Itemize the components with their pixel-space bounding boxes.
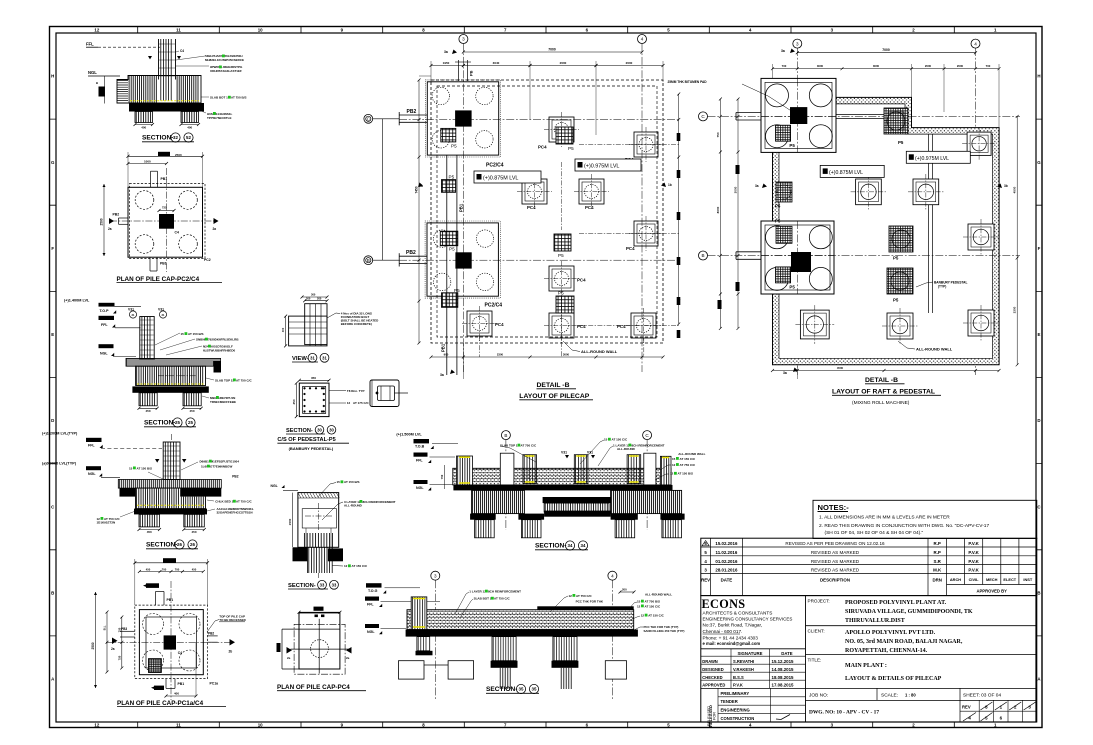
section marker arrows a2 <box>109 218 114 224</box>
svg-text:FFL: FFL <box>367 603 374 607</box>
signature table <box>701 648 806 650</box>
svg-text:PB2: PB2 <box>113 213 120 217</box>
section 33 pedestal section <box>271 480 396 589</box>
svg-text:3a: 3a <box>755 184 759 188</box>
svg-text:15: 15 <box>637 600 641 604</box>
svg-text:TITLE:: TITLE: <box>808 658 822 663</box>
svg-text:ENGINEERING: ENGINEERING <box>721 708 750 713</box>
svg-text:15: 15 <box>181 332 185 336</box>
svg-text:2000: 2000 <box>626 61 633 65</box>
svg-text:33: 33 <box>332 582 337 587</box>
svg-text:3a: 3a <box>444 50 448 54</box>
svg-text:700: 700 <box>782 64 787 68</box>
black beam blocks section 26 <box>120 488 136 497</box>
svg-text:ARCH: ARCH <box>950 577 961 582</box>
svg-text:SECTION-: SECTION- <box>535 543 567 550</box>
svg-text:FFL: FFL <box>416 459 423 463</box>
svg-text:P5: P5 <box>558 291 564 296</box>
svg-text:CIVIL: CIVIL <box>969 577 980 582</box>
svg-text:CLIENT:: CLIENT: <box>808 629 825 634</box>
svg-text:APOLLO POLYVINYL PVT LTD.: APOLLO POLYVINYL PVT LTD. <box>845 630 936 636</box>
svg-text:12: 12 <box>569 594 573 598</box>
PB1 beam vertical <box>446 155 448 375</box>
svg-text:SCALE:: SCALE: <box>881 693 898 699</box>
PB2 stub at grid B <box>399 255 427 257</box>
column of section 25 <box>140 317 154 360</box>
P5 hatched base2 bottom-left <box>776 267 791 283</box>
svg-text:15: 15 <box>672 457 676 461</box>
svg-text:2000: 2000 <box>925 64 932 68</box>
svg-text:SLAB BOT 15: SLAB BOT 15 <box>210 96 230 100</box>
black band under slab section 34 <box>453 485 672 491</box>
svg-text:3300: 3300 <box>1013 306 1017 313</box>
svg-text:33: 33 <box>320 582 325 587</box>
grid line C horizontal <box>373 118 399 120</box>
section 30 pedestal cross-section <box>277 376 369 451</box>
svg-text:(BANBURY PEDESTAL): (BANBURY PEDESTAL) <box>289 446 334 451</box>
pile caps black bands section 34 <box>470 514 496 520</box>
plain pedestals right layout <box>967 132 991 155</box>
svg-text:G: G <box>51 160 55 165</box>
raft outline with stipple band <box>773 97 1000 364</box>
svg-text:PB1: PB1 <box>167 598 174 602</box>
svg-text:4: 4 <box>974 41 977 46</box>
grid bubble 4 <box>638 35 647 44</box>
bottom dimension right layout <box>773 370 1000 372</box>
svg-text:11.02.2016: 11.02.2016 <box>716 550 738 555</box>
column C4 black square in plan PC1a <box>164 635 176 649</box>
svg-text:ECONS: ECONS <box>702 597 746 611</box>
svg-text:17.08.2015: 17.08.2015 <box>772 683 795 688</box>
svg-text:NOTES:-: NOTES:- <box>818 503 850 512</box>
hatched P5 pedestal top center <box>884 108 908 134</box>
svg-text:900: 900 <box>444 352 449 356</box>
svg-text:PC4: PC4 <box>495 322 504 327</box>
yellow screed line section 25 <box>137 383 204 385</box>
svg-text:700: 700 <box>986 64 991 68</box>
section 25 cross-section <box>64 299 252 428</box>
svg-text:APPROVED: APPROVED <box>702 683 725 688</box>
svg-text:NGL: NGL <box>271 484 278 488</box>
svg-text:NGL: NGL <box>100 352 108 356</box>
svg-text:15: 15 <box>129 466 133 470</box>
svg-text:AT 750 C/C: AT 750 C/C <box>576 594 592 598</box>
svg-text:3a: 3a <box>783 371 787 375</box>
svg-text:15: 15 <box>604 438 608 442</box>
svg-text:2300: 2300 <box>497 352 504 356</box>
svg-text:MAIN PLANT :: MAIN PLANT : <box>845 663 887 669</box>
svg-text:7000: 7000 <box>882 48 890 52</box>
svg-text:2b: 2b <box>229 650 233 654</box>
svg-text:700: 700 <box>175 567 180 571</box>
grid C B horizontals right layout <box>708 115 1021 117</box>
centerlines plan PC1a <box>170 581 172 700</box>
svg-text:12: 12 <box>94 28 99 33</box>
banbury P5 in lower cap top-left <box>440 231 458 246</box>
black pcc band section 26 <box>134 509 207 515</box>
black pcc band under section 32 <box>129 103 204 112</box>
svg-text:32: 32 <box>173 135 178 140</box>
svg-text:400: 400 <box>281 327 285 332</box>
svg-text:MECH: MECH <box>986 577 998 582</box>
svg-text:SNBNL37920DK6FRL5EKLRB: SNBNL37920DK6FRL5EKLRB <box>196 338 239 342</box>
svg-text:NGL: NGL <box>88 70 97 75</box>
svg-text:S.REVATHI: S.REVATHI <box>733 659 754 664</box>
svg-text:B: B <box>51 590 54 595</box>
PB2 stub left <box>119 217 129 219</box>
svg-text:D: D <box>1037 418 1040 423</box>
svg-text:ALL-ROUND WALL: ALL-ROUND WALL <box>916 347 953 352</box>
svg-text:No:37, Burkit Road, T.Nagar,: No:37, Burkit Road, T.Nagar, <box>703 623 763 628</box>
svg-text:CHLK BED 12: CHLK BED 12 <box>215 500 235 504</box>
svg-text:PC4: PC4 <box>538 145 547 150</box>
svg-text:400: 400 <box>174 692 179 696</box>
svg-text:P.V.K: P.V.K <box>733 683 743 688</box>
svg-text:PB: PB <box>469 70 474 76</box>
svg-text:AT 150 C/C: AT 150 C/C <box>680 457 696 461</box>
level label 0.975 right layout <box>906 151 970 163</box>
svg-text:B: B <box>96 81 98 85</box>
svg-text:3040: 3040 <box>493 61 500 65</box>
svg-text:PB2: PB2 <box>406 250 416 256</box>
black column base 2 <box>791 252 811 272</box>
svg-text:450: 450 <box>147 530 152 534</box>
svg-text:B: B <box>504 433 507 438</box>
revision history table <box>701 538 1037 595</box>
svg-text:2500: 2500 <box>175 153 182 157</box>
svg-text:FFL: FFL <box>88 444 95 448</box>
svg-text:450: 450 <box>192 567 197 571</box>
plan of pile cap PC1a/C4 <box>91 558 247 707</box>
svg-text:REVISED AS MARKED: REVISED AS MARKED <box>811 550 860 555</box>
svg-text:DATE: DATE <box>781 651 793 656</box>
svg-text:T8 Rnn. TYP: T8 Rnn. TYP <box>347 389 365 393</box>
frame grid reference ticks and labels <box>138 27 955 728</box>
P5 hatched base1 bottom-left <box>776 125 791 141</box>
svg-text:C/S OF PEDESTAL-P5: C/S OF PEDESTAL-P5 <box>277 437 335 443</box>
svg-text:C4: C4 <box>180 49 184 53</box>
svg-text:PC4: PC4 <box>577 278 586 283</box>
level label 0.975M <box>575 159 641 171</box>
svg-text:LAYOUT OF RAFT & PEDESTAL: LAYOUT OF RAFT & PEDESTAL <box>832 388 935 395</box>
svg-text:SLAB TOP 15: SLAB TOP 15 <box>500 444 520 448</box>
svg-text:6LBTWU5BNFRH8ED0: 6LBTWU5BNFRH8ED0 <box>203 348 236 352</box>
svg-text:25: 25 <box>175 420 180 425</box>
grid line B horizontal <box>373 259 399 261</box>
svg-text:H: H <box>51 74 54 79</box>
svg-text:2000: 2000 <box>957 64 964 68</box>
PB1 stub bottom <box>165 679 167 689</box>
pile cap blocks section 34 <box>472 490 525 513</box>
svg-text:12: 12 <box>344 564 348 568</box>
released-for table <box>717 688 719 722</box>
svg-text:AT 150 C/C: AT 150 C/C <box>612 438 628 442</box>
svg-text:ARCHITECTS & CONSULTANTS: ARCHITECTS & CONSULTANTS <box>703 611 773 616</box>
svg-text:15: 15 <box>337 480 341 484</box>
svg-text:(±)0.0000 LVL(TYP): (±)0.0000 LVL(TYP) <box>42 462 77 466</box>
grid line overlays through machine bases <box>796 78 798 152</box>
section 32 pile cap cross-section top-left <box>86 39 246 142</box>
svg-text:P5: P5 <box>898 140 904 145</box>
svg-text:UDHNTASG3LAST1EF: UDHNTASG3LAST1EF <box>210 69 242 73</box>
grid bubbles B C section 34 <box>501 431 510 440</box>
svg-text:2. READ THIS DRAWING IN CONJUN: 2. READ THIS DRAWING IN CONJUNCTION WITH… <box>819 523 989 529</box>
svg-text:3a: 3a <box>440 373 444 377</box>
left connector line between grid bubbles <box>382 119 384 260</box>
svg-text:DRN: DRN <box>932 578 942 583</box>
svg-text:1 LAYER 12: 1 LAYER 12 <box>469 590 486 594</box>
svg-text:DRAWN: DRAWN <box>702 659 718 664</box>
svg-text:E: E <box>51 332 54 337</box>
svg-text:AT 150 B/S: AT 150 B/S <box>678 472 693 476</box>
svg-text:4500: 4500 <box>1013 186 1017 193</box>
pile cap PC2/C4 lower <box>425 221 500 298</box>
slab band section 35 <box>407 610 634 630</box>
column black square lower PC2/C4 <box>455 252 471 268</box>
svg-text:VIEW-: VIEW- <box>292 356 309 362</box>
PB stub above upper cap <box>458 60 460 81</box>
svg-text:SECTION-: SECTION- <box>286 428 313 434</box>
svg-text:52: 52 <box>186 135 191 140</box>
svg-text:SECTION-: SECTION- <box>142 135 174 142</box>
svg-text:THIRUVALLUR.DIST: THIRUVALLUR.DIST <box>845 618 905 624</box>
svg-text:P5: P5 <box>558 253 564 258</box>
svg-text:AT 750 C/C: AT 750 C/C <box>494 597 510 601</box>
svg-text:AT 750 C/C: AT 750 C/C <box>236 378 252 382</box>
svg-text:3b: 3b <box>1004 184 1008 188</box>
machine base 2 <box>761 221 834 294</box>
beam stub left at grid C <box>736 112 761 114</box>
svg-text:F: F <box>51 246 54 251</box>
hatched P5 pedestal mid center <box>889 226 913 252</box>
svg-text:PB1: PB1 <box>160 262 167 266</box>
section 26 cross-section <box>42 432 254 550</box>
svg-text:PB1: PB1 <box>161 177 168 181</box>
yellow screed line <box>130 100 199 102</box>
svg-text:LAYOUT OF PILECAP: LAYOUT OF PILECAP <box>519 393 589 400</box>
svg-text:R.P: R.P <box>934 550 941 555</box>
svg-text:NO. 05, 3rd MAIN ROAD, BALAJI: NO. 05, 3rd MAIN ROAD, BALAJI NAGAR, <box>845 639 963 645</box>
P5 pedestal lower center <box>556 296 574 313</box>
svg-text:3: 3 <box>462 37 465 42</box>
hatched piles mid section 35 <box>492 637 516 661</box>
grid bubble 3 right layout <box>793 39 802 48</box>
svg-text:FFL: FFL <box>101 323 108 327</box>
svg-text:2a: 2a <box>213 227 217 231</box>
svg-text:(SH 01 OF 04, SH 02 OF 04 & SH: (SH 01 OF 04, SH 02 OF 04 & SH 04 OF 04)… <box>825 530 924 536</box>
yellow screed line section 26 <box>137 504 204 506</box>
svg-text:3000: 3000 <box>817 64 824 68</box>
svg-text:NGL: NGL <box>88 472 96 476</box>
svg-text:450: 450 <box>145 409 150 413</box>
svg-text:8CH REINFORCEMENT: 8CH REINFORCEMENT <box>363 500 396 504</box>
pile cap body section 25 <box>136 366 206 385</box>
svg-text:REVISED AS MARKED: REVISED AS MARKED <box>811 568 860 573</box>
anchor pocket detail beside section 30 <box>370 380 408 407</box>
svg-text:725: 725 <box>162 206 167 210</box>
svg-text:SECTION-: SECTION- <box>288 583 316 589</box>
section arrows plan PC4 <box>287 647 293 654</box>
svg-text:15.02.2016: 15.02.2016 <box>715 541 738 546</box>
centerlines plan PC2/C4 <box>166 168 168 272</box>
small pier below section 35 <box>417 637 430 651</box>
svg-text:(+)0.875M LVL: (+)0.875M LVL <box>829 170 863 176</box>
svg-text:AT 150 C/C: AT 150 C/C <box>648 614 664 618</box>
svg-text:ROYAPETTAH, CHENNAI-14.: ROYAPETTAH, CHENNAI-14. <box>845 648 928 654</box>
piles section 34 <box>475 520 495 538</box>
svg-text:FOR: FOR <box>713 712 717 720</box>
svg-text:350: 350 <box>292 399 296 404</box>
svg-text:P5: P5 <box>893 256 899 261</box>
svg-text:SECTION-: SECTION- <box>144 420 176 427</box>
svg-text:30: 30 <box>317 427 322 432</box>
svg-text:P5: P5 <box>568 146 574 151</box>
svg-text:14.08.2015: 14.08.2015 <box>772 667 795 672</box>
svg-text:S.R: S.R <box>934 559 942 564</box>
right dimension chain right layout <box>1016 116 1018 364</box>
grid bubble C <box>364 114 373 123</box>
left hatched wall section 34 <box>457 456 473 485</box>
grid verticals right layout <box>796 48 798 375</box>
svg-text:PB1: PB1 <box>441 343 446 352</box>
level label 0.875 right layout <box>820 165 884 177</box>
left dimension chains plan PC1a <box>95 592 97 688</box>
svg-text:(+)1.400M LVL: (+)1.400M LVL <box>64 299 90 303</box>
svg-text:MH82EL1KU69P35CSERCE: MH82EL1KU69P35CSERCE <box>205 58 244 62</box>
svg-text:REVISED AS MARKED: REVISED AS MARKED <box>811 559 860 564</box>
svg-text:P.V.K: P.V.K <box>968 550 979 555</box>
svg-text:PB1: PB1 <box>178 682 185 686</box>
svg-text:PB2: PB2 <box>208 631 214 635</box>
svg-text:700: 700 <box>162 567 167 571</box>
svg-text:31: 31 <box>322 355 327 360</box>
svg-text:AT 150 C/C: AT 150 C/C <box>352 564 368 568</box>
svg-text:ENGINEERING CONSULTANCY SERVIC: ENGINEERING CONSULTANCY SERVICES <box>703 617 793 622</box>
svg-text:2a: 2a <box>346 656 350 660</box>
svg-text:12: 12 <box>637 604 641 608</box>
grid bubble B <box>364 256 373 265</box>
svg-text:PLAN OF PILE CAP-PC1a/C4: PLAN OF PILE CAP-PC1a/C4 <box>117 700 204 707</box>
svg-text:SIGNATURE: SIGNATURE <box>738 651 763 656</box>
svg-text:SHEET: 03 OF 04: SHEET: 03 OF 04 <box>963 693 1001 699</box>
svg-text:P5: P5 <box>449 174 455 179</box>
svg-text:PC4: PC4 <box>585 205 594 210</box>
svg-text:P5: P5 <box>893 298 899 303</box>
svg-text:(+)0.975M LVL: (+)0.975M LVL <box>584 164 619 170</box>
svg-text:35: 35 <box>519 687 524 692</box>
svg-text:PC4: PC4 <box>617 324 626 329</box>
svg-text:1000: 1000 <box>144 159 151 163</box>
svg-text:10: 10 <box>258 723 263 728</box>
plan of pile cap PC2/C4 <box>99 152 222 283</box>
svg-text:PC4: PC4 <box>527 205 536 210</box>
svg-text:TENDER: TENDER <box>721 699 738 704</box>
grid line 4 vertical <box>641 44 643 373</box>
grid bubbles 3 4 section 35 <box>431 571 440 580</box>
banbury pedestal hatched square in plan PC1a <box>149 659 162 673</box>
svg-text:31: 31 <box>310 355 315 360</box>
svg-text:P.V.K: P.V.K <box>968 559 979 564</box>
top dimension 7000 right layout <box>797 52 975 54</box>
svg-text:P5: P5 <box>789 285 795 290</box>
svg-text:F: F <box>1038 246 1041 251</box>
svg-text:(+)1.200M LVL(TYP): (+)1.200M LVL(TYP) <box>42 432 78 436</box>
svg-text:PRELIMINARY: PRELIMINARY <box>721 691 750 696</box>
svg-text:DWG. NO: 10 - APV - CV - 17: DWG. NO: 10 - APV - CV - 17 <box>809 710 879 716</box>
svg-text:26: 26 <box>177 542 182 547</box>
svg-text:DETAIL -B: DETAIL -B <box>865 377 898 384</box>
svg-text:PB1: PB1 <box>459 203 464 212</box>
svg-text:DESCRIPTION: DESCRIPTION <box>820 578 850 583</box>
wall beam along grid C to pedestal <box>836 114 884 116</box>
svg-text:12: 12 <box>641 614 645 618</box>
P5 pedestal between caps <box>442 180 456 193</box>
svg-text:(MIXING ROLL MACHINE): (MIXING ROLL MACHINE) <box>852 400 910 406</box>
svg-text:ALL-ROUND: ALL-ROUND <box>617 447 636 451</box>
piles of section 32 <box>135 112 153 123</box>
banbury P5 in upper cap <box>441 128 456 142</box>
svg-text:PC4: PC4 <box>626 246 635 251</box>
svg-text:12: 12 <box>670 472 674 476</box>
svg-text:FFL: FFL <box>86 42 94 47</box>
left dimension chains right layout <box>719 99 721 328</box>
grid bubble 3 <box>459 35 468 44</box>
svg-text:T.O.B: T.O.B <box>415 445 425 449</box>
left dimension 2500 <box>103 184 105 256</box>
svg-text:1D1K91ET2N: 1D1K91ET2N <box>97 521 116 525</box>
svg-text:2500: 2500 <box>99 218 103 225</box>
svg-text:ALL-ROUND: ALL-ROUND <box>344 503 363 507</box>
P5 hatched base2 top-left <box>776 226 792 243</box>
plain outline piles section 35 <box>399 661 425 679</box>
svg-text:SAND FILLING 450 THK (TYP): SAND FILLING 450 THK (TYP) <box>644 629 685 633</box>
svg-text:1500: 1500 <box>288 518 292 525</box>
svg-text:2a: 2a <box>111 647 115 651</box>
svg-text:NGL: NGL <box>416 486 424 490</box>
banbury P5 below lower cap <box>442 293 458 308</box>
svg-text:28.01.2016: 28.01.2016 <box>715 568 738 573</box>
svg-text:7000: 7000 <box>548 47 556 51</box>
svg-text:8000: 8000 <box>716 206 720 213</box>
PB2 stub at grid C <box>399 114 427 116</box>
svg-text:M.K: M.K <box>933 568 942 573</box>
svg-text:AT 750 C/C: AT 750 C/C <box>680 463 696 467</box>
svg-text:300: 300 <box>311 293 316 297</box>
column black square upper PC2/C4 <box>455 110 472 126</box>
svg-text:18.08.2015: 18.08.2015 <box>772 675 795 680</box>
svg-text:C4: C4 <box>178 651 182 655</box>
svg-text:P5: P5 <box>789 143 795 148</box>
svg-text:4: 4 <box>641 37 644 42</box>
svg-text:25MM THK BITUMEN PAD: 25MM THK BITUMEN PAD <box>668 80 708 84</box>
svg-text:TO BE RECESSED: TO BE RECESSED <box>219 618 246 622</box>
piles section 25 <box>139 393 157 406</box>
top dimension 7000 <box>463 51 642 53</box>
pedestal stubs on slab section 34 <box>523 455 537 484</box>
svg-text:D69B1FM1EFB2FU3TG1004: D69B1FM1EFB2FU3TG1004 <box>200 460 240 464</box>
svg-text:PB2: PB2 <box>232 474 238 478</box>
svg-text:12: 12 <box>94 723 99 728</box>
svg-text:P5: P5 <box>775 204 781 209</box>
PB1 stub top plan PC1a <box>155 592 157 606</box>
svg-text:3000: 3000 <box>873 64 880 68</box>
svg-text:AT 750 B/S: AT 750 B/S <box>645 600 660 604</box>
piles section 26 <box>139 514 160 527</box>
svg-text:DETAIL -B: DETAIL -B <box>537 382 570 389</box>
pile below section 33 <box>308 547 333 573</box>
P5 hatched left wall pedestal <box>776 182 792 202</box>
svg-text:PROJECT:: PROJECT: <box>808 599 830 604</box>
